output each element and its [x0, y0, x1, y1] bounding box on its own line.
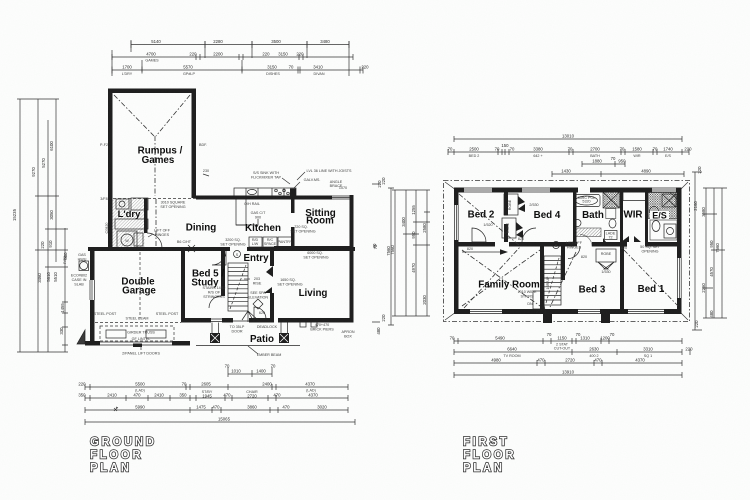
rumpus [108, 89, 196, 94]
appliance boxes [249, 237, 262, 247]
dim row 1 top [131, 44, 349, 46]
bottom wall [181, 318, 211, 323]
right wall [677, 188, 682, 259]
right wall [350, 195, 354, 323]
bed2 door + arrow [472, 228, 486, 242]
left wall [454, 188, 459, 206]
dim row 3 [112, 69, 363, 71]
entry [234, 251, 241, 258]
dim row 2 [112, 56, 353, 58]
mid wall garage top + kitchen divider [88, 247, 230, 251]
mid wall with openings [458, 242, 495, 247]
roof dash-dot lines [459, 194, 520, 308]
sitting/living divider [274, 246, 352, 249]
entry/living wall [270, 251, 274, 266]
roof overhang outline [444, 181, 690, 322]
patio [210, 333, 220, 343]
E/S [648, 193, 677, 219]
bed4 door [522, 228, 536, 242]
bath fixtures [574, 195, 601, 207]
bottom wall with window gaps [454, 309, 470, 314]
kitchen bench top [234, 188, 296, 196]
garage left wall with window [90, 247, 95, 280]
interior vertical walls [504, 193, 508, 216]
bed5/entry wall [221, 251, 225, 296]
living door wedges [264, 266, 273, 293]
bed3 door [568, 247, 580, 259]
robes bed2/bed4 [504, 194, 518, 215]
stairs [228, 263, 260, 322]
landing / lift off hinges [553, 242, 560, 249]
kitchen/sitting wall [291, 199, 295, 213]
bed3 robe [596, 249, 616, 262]
piers below bottom wall [543, 314, 552, 323]
connector verticals [112, 40, 349, 76]
WIR shelves [623, 193, 645, 201]
top wall with window gaps [454, 188, 464, 193]
ldry left wall [108, 198, 113, 251]
garage bottom with door opening [85, 341, 100, 346]
top wall kitchen/sitting with window [196, 196, 332, 200]
door wedges mid-right [621, 236, 641, 242]
garage/bed5 wall [181, 251, 185, 318]
stairs ff [533, 256, 561, 315]
ldry fixtures [113, 198, 145, 250]
